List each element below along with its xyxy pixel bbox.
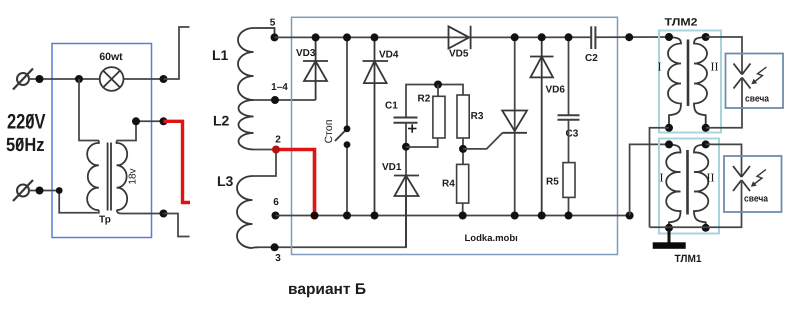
mains terminal X1 <box>13 69 33 90</box>
node TLM2 I top <box>665 33 673 41</box>
ground bar <box>653 242 686 249</box>
node TLM2 II top <box>702 33 710 41</box>
node tap 3 <box>271 243 279 251</box>
svg-text:C3: C3 <box>566 129 579 140</box>
svg-text:220V: 220V <box>7 111 46 134</box>
node TLM2 I bottom <box>665 124 673 132</box>
svg-text:1–4: 1–4 <box>271 82 288 93</box>
wire terminal X2 to primary bottom <box>29 191 99 213</box>
discharge arrow 1 <box>751 67 766 84</box>
transformer Tp core <box>108 143 111 211</box>
svg-text:II: II <box>707 171 715 185</box>
switch Stop lever <box>335 129 347 141</box>
diode VD1 <box>394 176 419 248</box>
capacitor C3 <box>558 115 580 119</box>
wire red stub secondary <box>164 121 191 202</box>
TLM1 core <box>686 150 689 215</box>
node rail stray <box>625 33 633 41</box>
node red to rail <box>311 212 319 220</box>
wire R3 to R4 <box>462 138 464 164</box>
wire secondary top <box>117 121 164 140</box>
node lamp output <box>160 75 168 83</box>
wire stub to generator top <box>164 27 190 79</box>
svg-text:VD4: VD4 <box>379 50 399 61</box>
wire lamp output <box>124 78 164 80</box>
svg-text:3: 3 <box>275 253 281 264</box>
svg-text:вариант Б: вариант Б <box>288 281 366 298</box>
svg-text:R3: R3 <box>471 111 484 122</box>
svg-text:I: I <box>658 60 662 74</box>
svg-text:5: 5 <box>270 18 276 29</box>
svg-text:L2: L2 <box>213 113 230 129</box>
switch contact top <box>344 125 351 132</box>
node TLM1 II top <box>702 140 710 148</box>
thyristor VS triangle <box>502 111 527 132</box>
wire R2 top lead <box>437 85 439 97</box>
wire top rail to TLM2 <box>595 36 669 38</box>
node tap 2 red <box>272 146 280 154</box>
node secondary bottom <box>160 210 168 218</box>
converter unit box <box>292 17 618 254</box>
node VD3 rail <box>312 33 320 41</box>
ground stem <box>668 228 671 243</box>
transformer TLM2 box <box>659 31 721 133</box>
svg-text:ТЛМ1: ТЛМ1 <box>675 253 702 265</box>
TLM2 winding II <box>694 37 707 128</box>
resistor R4 <box>457 164 469 203</box>
spark plug 2 box <box>724 156 782 212</box>
wire terminal X1 to lamp <box>29 78 100 80</box>
TLM1 winding II <box>694 144 708 227</box>
coil L1 <box>238 28 275 100</box>
wire bottom rail <box>276 215 630 217</box>
svg-text:C1: C1 <box>385 101 398 112</box>
diode VD6 <box>530 37 554 215</box>
svg-text:свеча: свеча <box>744 194 769 205</box>
wire C3 column top <box>568 37 570 115</box>
wire tap 2 link <box>254 149 277 151</box>
thyristor VS cathode bar <box>503 132 528 134</box>
discharge arrow 2 <box>751 170 766 187</box>
svg-text:ТЛМ2: ТЛМ2 <box>665 17 698 29</box>
thyristor VS anode column <box>514 37 516 132</box>
transformer Tp secondary winding <box>117 141 128 211</box>
wire node to R2 bottom <box>406 138 438 147</box>
node C1 VD1 <box>402 143 410 151</box>
node thyristor bottom rail <box>511 212 519 220</box>
svg-text:II: II <box>711 60 719 74</box>
svg-text:2: 2 <box>275 135 281 146</box>
svg-text:VD6: VD6 <box>546 85 566 96</box>
diode VD3 <box>303 37 328 100</box>
TLM1 winding I <box>666 144 680 227</box>
svg-text:I: I <box>660 171 664 185</box>
svg-text:свеча: свеча <box>745 94 770 105</box>
node secondary top outer <box>160 117 168 125</box>
node bottom rail end <box>626 212 634 220</box>
node VD4 rail <box>371 33 379 41</box>
wire node A top <box>406 85 463 118</box>
lamp HL 60wt <box>100 67 124 91</box>
node tap 5 <box>271 33 279 41</box>
resistor R2 <box>433 96 445 138</box>
TLM2 core <box>687 40 690 107</box>
wire gate <box>463 133 503 149</box>
capacitor C1 <box>394 118 418 123</box>
svg-text:R2: R2 <box>418 94 431 105</box>
wire R4 bottom <box>462 203 464 215</box>
svg-text:VD3: VD3 <box>296 48 316 59</box>
node TLM1 I top <box>665 140 673 148</box>
transformer Tp primary winding <box>87 141 99 211</box>
wire branch down to primary <box>79 79 99 141</box>
wire red tap 2 <box>276 150 315 216</box>
wire stub secondary bottom <box>164 214 190 237</box>
svg-text:C2: C2 <box>585 53 598 64</box>
coil L3 <box>237 176 258 248</box>
svg-text:R4: R4 <box>442 179 455 190</box>
wire L2 to L3 <box>253 150 277 177</box>
node switch bottom rail <box>343 212 351 220</box>
node VD6 bottom rail <box>538 212 546 220</box>
svg-text:6: 6 <box>273 197 279 208</box>
transformer TLM1 box <box>659 139 719 234</box>
mains unit box <box>52 44 152 238</box>
slash zero of 220V <box>26 114 33 127</box>
node VD4 bottom rail <box>371 212 379 220</box>
node R5 rail <box>565 212 573 220</box>
node gate <box>459 145 467 153</box>
node switch rail <box>343 33 351 41</box>
node X2 corner <box>56 187 63 194</box>
spark plug 1 box <box>726 54 784 109</box>
svg-text:Стоп: Стоп <box>323 120 335 144</box>
wire TLM1 II top to spark gap 2 <box>706 144 742 177</box>
wire TLM2 II top to spark gap 1 <box>706 37 742 75</box>
svg-text:L1: L1 <box>212 47 229 63</box>
wire C1 bottom <box>405 123 407 176</box>
wire bottom rail to TLM1 I top <box>630 144 669 215</box>
svg-text:60wt: 60wt <box>99 51 123 63</box>
node TLM1 I bottom <box>665 224 673 232</box>
diode VD5 <box>449 26 471 50</box>
thyristor VS cathode column <box>514 133 516 216</box>
slash zero of 50Hz <box>16 138 23 150</box>
wire R5 bottom <box>568 197 570 215</box>
svg-text:Lodka.mobı: Lodka.mobı <box>465 233 518 244</box>
node TLM1 II bottom <box>702 224 710 232</box>
svg-text:18v: 18v <box>128 168 139 184</box>
mains terminal X2 <box>13 180 33 201</box>
wire spark gap 1 return <box>706 78 742 128</box>
spark gap 2 <box>733 166 750 191</box>
wire secondary bottom <box>117 210 164 214</box>
TLM2 winding I <box>668 37 681 128</box>
node A dot R2 <box>434 81 442 89</box>
node tap 6 <box>272 212 280 220</box>
svg-text:L3: L3 <box>217 173 234 189</box>
wire top rail <box>275 36 592 38</box>
node secondary top inner <box>132 117 140 125</box>
resistor R3 <box>457 95 469 138</box>
wire TLM2 I bottom to ground <box>650 128 670 228</box>
node X1 <box>36 75 44 83</box>
spark gap 1 <box>734 64 751 89</box>
svg-text:Тр: Тр <box>99 215 111 226</box>
svg-text:R5: R5 <box>546 177 559 188</box>
node R4 rail <box>459 212 467 220</box>
node thyristor rail <box>511 33 519 41</box>
svg-text:VD1: VD1 <box>382 162 402 173</box>
wire tap 1-4 <box>254 99 316 101</box>
wire tap 3 <box>258 196 406 247</box>
node C3 rail <box>565 33 573 41</box>
wire C3 to R5 <box>568 120 570 163</box>
node X2 <box>36 187 44 195</box>
C1 plus sign <box>408 124 417 132</box>
node TLM2 II bottom <box>702 124 710 132</box>
wire spark gap 2 return <box>650 180 742 227</box>
node lamp branch <box>75 75 83 83</box>
coil L2 <box>238 100 253 150</box>
node VD6 rail <box>538 33 546 41</box>
diode VD4 <box>363 37 389 215</box>
svg-text:50Hz: 50Hz <box>6 135 45 156</box>
node tap 1-4 <box>271 96 279 104</box>
capacitor C2 <box>591 26 595 49</box>
switch Stop column <box>346 37 348 215</box>
svg-text:VD5: VD5 <box>449 49 469 60</box>
resistor R5 <box>563 163 575 198</box>
switch contact bottom <box>344 141 351 148</box>
